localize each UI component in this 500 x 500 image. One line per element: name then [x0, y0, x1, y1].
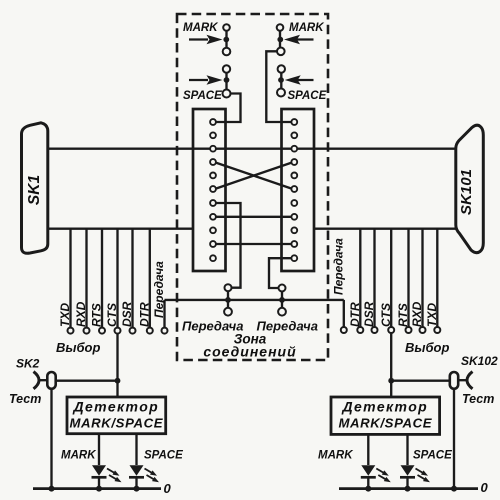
wire cable lower edge right (XS2 to SK101): [314, 228, 456, 230]
svg-text:SK101: SK101: [458, 169, 475, 215]
switch S4 SPACE contact (right): [277, 89, 285, 97]
lower switch S5 lower contact: [224, 308, 232, 316]
svg-text:RXD: RXD: [74, 301, 88, 327]
wire pin11R to lower switch S6: [269, 258, 292, 288]
wire CTS right down to test junction: [390, 333, 392, 397]
left strip pins: [210, 119, 216, 261]
detector box right: [331, 397, 440, 434]
svg-text:TXD: TXD: [58, 303, 72, 327]
right signal labels: [332, 238, 440, 327]
connector SK101: [456, 125, 484, 252]
wire CTS left down to test junction: [116, 334, 118, 397]
svg-text:DSR: DSR: [362, 301, 376, 327]
switch S1 lower contact (left): [223, 48, 231, 56]
jack SK2 stub: [40, 379, 48, 381]
svg-text:Детектор: Детектор: [72, 399, 159, 415]
junction dot right test: [388, 378, 394, 384]
switch S2 SPACE contact (left): [223, 90, 231, 98]
svg-text:MARK: MARK: [289, 22, 324, 34]
svg-text:Тест: Тест: [9, 392, 41, 406]
switch S4 wiper arrow (right): [285, 75, 314, 84]
switch S4 common node (right): [278, 77, 284, 83]
lower switch S6 link: [281, 292, 283, 308]
wire pin7L to lower switch S5: [216, 203, 241, 288]
svg-text:SPACE: SPACE: [183, 90, 222, 102]
wire pin8 link: [216, 216, 292, 218]
rail junction dots left: [49, 486, 55, 492]
capsule SK102: [450, 372, 458, 389]
left test points row: [68, 328, 153, 334]
svg-text:Тест: Тест: [462, 392, 494, 406]
wire test line left: [56, 380, 118, 382]
switch S2 common node (left): [224, 77, 230, 83]
switch S3 wiper arrow (right): [284, 35, 314, 44]
wire Peredacha right test drop: [343, 300, 345, 327]
junction dot left test: [115, 378, 121, 384]
svg-text:MARK/SPACE: MARK/SPACE: [338, 416, 432, 431]
switch S3 MARK contact (right): [277, 24, 284, 48]
jack SK2: [34, 372, 40, 389]
wire crossover pin6L to pin4R: [216, 163, 292, 189]
left cable drop wires TXD RXD RTS CTS DSR DTR: [71, 229, 150, 328]
right strip pins: [291, 119, 297, 261]
LED VD4 SPACE: [400, 465, 430, 488]
svg-text:Выбор: Выбор: [56, 340, 100, 355]
lower switch S6 node: [279, 297, 285, 303]
wire TXD bus (SK1 to SK101 through pin 3): [48, 148, 456, 150]
svg-text:MARK/SPACE: MARK/SPACE: [69, 416, 163, 431]
svg-text:RXD: RXD: [410, 301, 424, 327]
svg-text:0: 0: [481, 480, 489, 495]
svg-text:Передача: Передача: [152, 261, 166, 318]
right pin strip XS2: [282, 109, 315, 271]
rail junction dots right: [365, 486, 371, 492]
test point Peredacha left: [162, 328, 168, 334]
switch S3 lower contact (right): [277, 48, 285, 56]
test point Peredacha right: [341, 327, 347, 333]
wire pin10 link: [216, 243, 292, 245]
svg-text:SPACE: SPACE: [413, 450, 452, 462]
lower switch S6 upper contact: [279, 285, 286, 292]
wire detector to LED4: [406, 434, 408, 465]
svg-text:CTS: CTS: [105, 303, 119, 327]
ground rail left: [33, 487, 161, 490]
svg-text:SK102: SK102: [461, 354, 498, 368]
ground rail right: [339, 487, 478, 490]
lower switch S6 lower contact: [278, 308, 286, 316]
LED VD1 MARK: [92, 465, 122, 488]
capsule SK2: [47, 372, 55, 389]
switch S3 common node (right): [277, 37, 283, 43]
jack SK102 stub: [458, 379, 466, 381]
lower switch S5 link: [227, 291, 229, 308]
svg-text:RTS: RTS: [396, 303, 410, 327]
lower switch S5 upper contact: [225, 284, 232, 291]
svg-text:MARK: MARK: [318, 450, 353, 462]
wire detector to LED1: [98, 434, 100, 465]
svg-text:DSR: DSR: [120, 301, 134, 327]
svg-text:0: 0: [164, 481, 172, 496]
switch S1 MARK contact (left): [223, 24, 230, 48]
svg-text:CTS: CTS: [379, 303, 393, 327]
svg-text:MARK: MARK: [61, 450, 96, 462]
svg-text:SPACE: SPACE: [144, 450, 183, 462]
wire cable lower edge left (SK1 to XS1): [48, 228, 193, 230]
right cable drop wires DTR DSR CTS RTS RXD TXD: [360, 229, 437, 327]
wire test line right: [391, 380, 450, 382]
LED VD3 MARK: [361, 465, 391, 488]
jack SK102: [467, 372, 473, 389]
connection zone dashed border: [177, 14, 328, 360]
svg-text:Передача: Передача: [332, 238, 346, 295]
wire S3 contact to pin 1 of right strip: [266, 51, 291, 122]
left signal labels: [58, 261, 166, 327]
connector SK1: [22, 123, 48, 253]
switch S1 wiper arrow (left): [189, 35, 223, 44]
svg-text:соединений: соединений: [203, 344, 296, 360]
svg-text:Детектор: Детектор: [341, 399, 428, 415]
wire detector to LED3: [367, 434, 369, 465]
svg-text:TXD: TXD: [425, 303, 439, 327]
switch S1 common node (left): [223, 37, 229, 43]
detector box left: [67, 397, 166, 434]
svg-text:SK2: SK2: [16, 357, 40, 371]
wire crossover pin4L to pin6R: [216, 163, 292, 189]
wire capsule down to rail right: [453, 389, 455, 489]
wire detector to LED2: [135, 434, 137, 465]
switch S4 upper contact (right): [278, 65, 285, 89]
wire SPACE contact to pin 1 of left strip: [216, 94, 241, 123]
svg-text:DTR: DTR: [137, 302, 151, 327]
switch S2 wiper arrow (left): [189, 75, 223, 84]
wire capsule down to rail: [50, 389, 52, 489]
svg-text:RTS: RTS: [90, 303, 104, 327]
LED VD2 SPACE: [129, 465, 159, 488]
right test points row: [357, 327, 440, 333]
svg-text:SPACE: SPACE: [288, 90, 327, 102]
svg-text:MARK: MARK: [183, 22, 218, 34]
lower switch S5 node: [225, 297, 231, 303]
switch S2 upper contact (left): [223, 65, 230, 89]
wire Peredacha cross line: [165, 299, 344, 301]
wire Peredacha left test drop: [163, 300, 165, 328]
svg-text:SK1: SK1: [26, 175, 43, 205]
svg-text:DTR: DTR: [348, 302, 362, 327]
left pin strip XS1: [193, 109, 226, 271]
svg-text:Выбор: Выбор: [405, 340, 449, 355]
